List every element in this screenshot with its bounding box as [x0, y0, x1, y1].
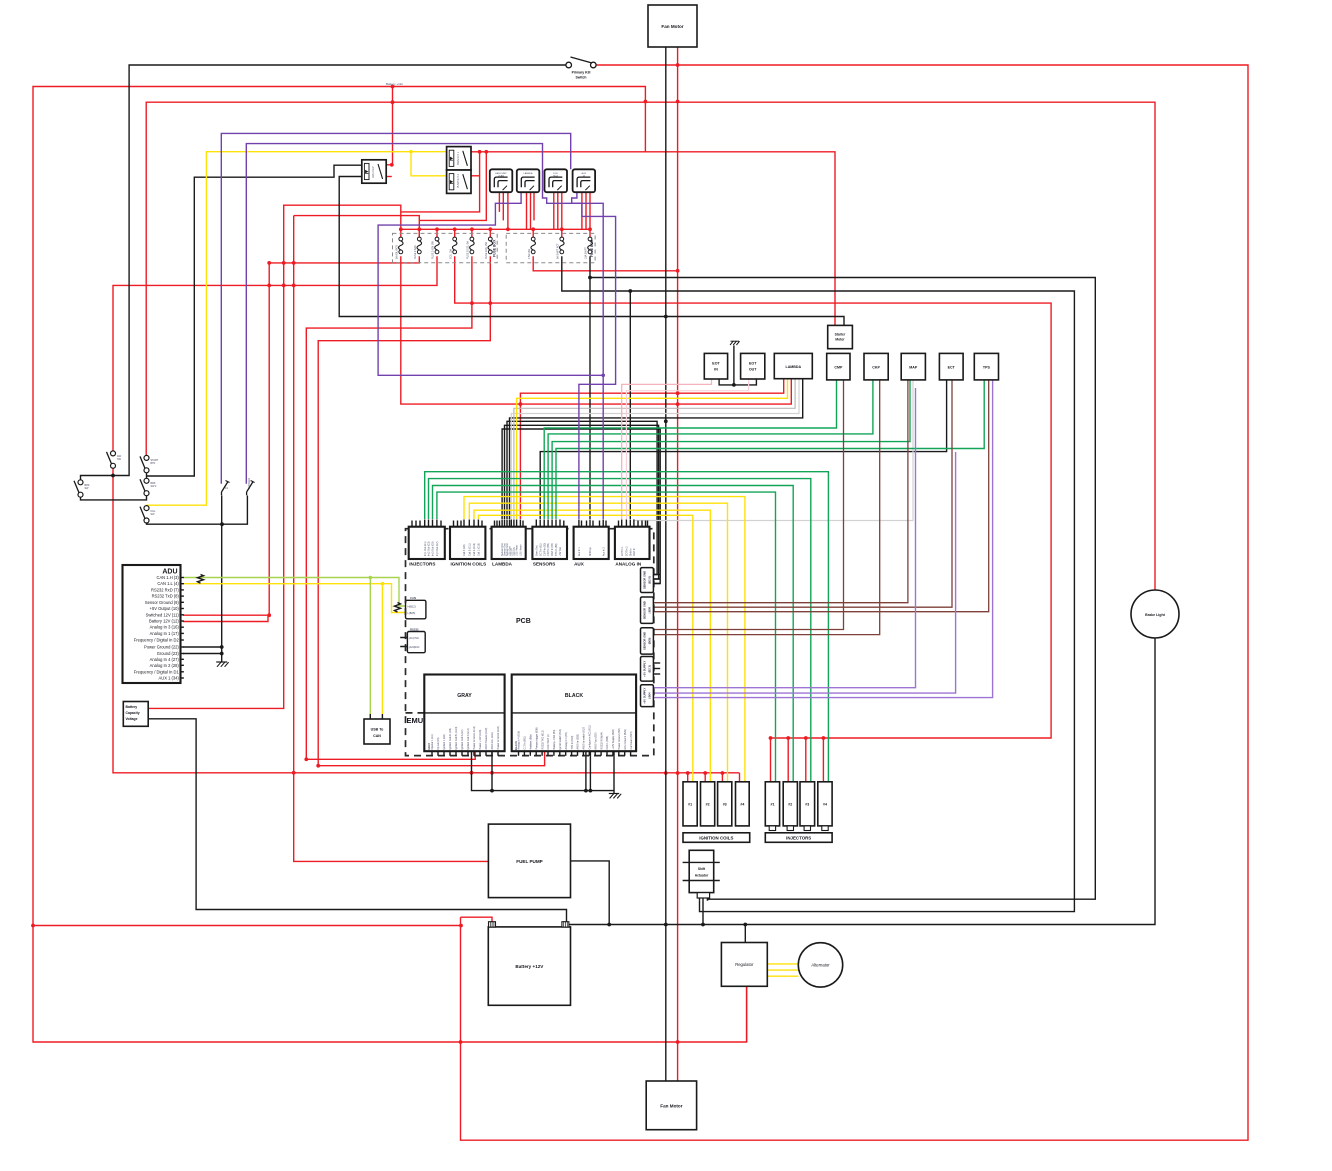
wire black: EMU ground pins [472, 751, 615, 793]
wire red: relay3 contact stub [470, 175, 479, 177]
wire brown: CKP ground [653, 380, 879, 635]
wire light-purple: +5V supply to MAP [653, 388, 915, 688]
svg-text:Inj 4 Out (G7): Inj 4 Out (G7) [436, 541, 439, 556]
svg-text:Inj 2 Out (G3): Inj 2 Out (G3) [428, 541, 431, 556]
svg-text:Configure in AC2 (B11): Configure in AC2 (B11) [589, 725, 592, 750]
svg-text:BTN: BTN [151, 462, 156, 465]
fuse box 1 [393, 233, 498, 262]
wire black: battery capacity voltage sense [149, 719, 567, 925]
wire red: relay socket pins to bus [499, 192, 590, 229]
svg-text:7.5A FAN: 7.5A FAN [528, 249, 531, 259]
wire green: injector 3 signal [429, 479, 811, 782]
wire black: kill switch line and switch3 feed [81, 65, 569, 482]
connector AUX pins [578, 520, 606, 557]
ignition coil 1 [683, 782, 697, 826]
resistor CAN terminator at PCB [395, 603, 401, 613]
svg-text:Battery 12V (12): Battery 12V (12) [149, 619, 179, 624]
wire brown: TPS ground [653, 380, 988, 612]
svg-text:Shift Up: Shift Up [589, 547, 592, 556]
wire yellow: kill feed to relay coils and switch5 [147, 152, 447, 508]
svg-text:Capacity: Capacity [126, 711, 140, 715]
svg-text:Switch: Switch [576, 76, 587, 80]
svg-text:RS232 TxD (8): RS232 TxD (8) [152, 594, 180, 599]
sensor CKP [864, 353, 888, 380]
connector ANALOG IN pins [619, 520, 648, 557]
svg-text:15A SHIFT: 15A SHIFT [585, 247, 588, 259]
wire green: injector 4 signal [425, 472, 829, 782]
svg-text:Coil 3 (G11): Coil 3 (G11) [468, 543, 471, 556]
svg-text:Ignition Coil 2 (G2): Ignition Coil 2 (G2) [461, 729, 464, 749]
svg-text:Power Gr land2 (G24): Power Gr land2 (G24) [497, 726, 500, 750]
svg-text:RS232: RS232 [410, 627, 419, 631]
wire black: regulator ground [744, 925, 746, 943]
svg-text:INJECTORS: INJECTORS [786, 836, 811, 841]
svg-text:SENSOR GND: SENSOR GND [643, 571, 647, 589]
svg-text:#1: #1 [771, 803, 775, 807]
connector BLACK [512, 675, 636, 752]
wire pink: EOT OUT signal [626, 379, 748, 519]
svg-text:PUMP RLY 2: PUMP RLY 2 [457, 173, 460, 188]
wire black: switch2-switch4 link [146, 472, 148, 481]
svg-text:+5V Output (10): +5V Output (10) [150, 606, 180, 611]
svg-text:AMO EGL (G21): AMO EGL (G21) [491, 732, 494, 750]
wire black: fuse to shift actuator line B [562, 256, 1075, 911]
svg-text:+5V SUPPLY: +5V SUPPLY [643, 687, 647, 703]
wire red: fuse top stubs [419, 229, 590, 239]
switch primary kill [566, 57, 596, 80]
svg-text:(B2 3): (B2 3) [648, 665, 652, 673]
svg-text:MAP: MAP [909, 366, 918, 370]
EMU connector pin stubs [432, 751, 631, 756]
ADU display unit [123, 565, 181, 683]
svg-text:(A24)RxD: (A24)RxD [409, 646, 420, 649]
svg-text:CAN: CAN [373, 734, 381, 738]
svg-text:PCB: PCB [516, 618, 531, 625]
svg-text:5A SHIFT ACT: 5A SHIFT ACT [556, 243, 559, 259]
svg-text:MAIN RLY 1: MAIN RLY 1 [457, 151, 460, 165]
wire red: fuse5 to ECU GRAY supply [306, 256, 475, 759]
wire yellow: ADU CAN low [183, 584, 406, 719]
svg-text:CAN 1.L (4): CAN 1.L (4) [157, 581, 179, 586]
svg-text:TPS In (B19): TPS In (B19) [571, 735, 574, 749]
ground symbol EOT chassis [730, 341, 740, 345]
fuse F5 [470, 237, 475, 254]
ADU pin labels [134, 575, 184, 681]
wire black: chassis lever to ADU grounds [183, 496, 222, 663]
svg-text:FUSE B ECU 5A: FUSE B ECU 5A [467, 241, 470, 259]
svg-text:Inj 3 Out (G5): Inj 3 Out (G5) [432, 541, 435, 556]
fuse F6 [488, 237, 493, 254]
wire green: TPS signal [556, 380, 984, 519]
wire yellow: ignition coil 2 signal [474, 510, 710, 782]
svg-text:Alternator: Alternator [811, 963, 830, 968]
svg-text:SENSOR GND: SENSOR GND [643, 632, 647, 650]
svg-text:Injector 1 (G1): Injector 1 (G1) [431, 734, 434, 749]
svg-text:Coil 4 (G9): Coil 4 (G9) [463, 544, 466, 556]
svg-text:EOT In 2: EOT In 2 [626, 546, 629, 556]
wire black: shift actuator ground pin [702, 901, 704, 925]
fan motor bottom [646, 1081, 696, 1130]
connector +5V SUPPLY (B2 3) [641, 657, 654, 682]
wire red: switch1 feed from fuse 3 [113, 256, 437, 453]
svg-text:OUT: OUT [749, 368, 757, 372]
svg-text:FUSE ECU 15A: FUSE ECU 15A [485, 242, 488, 259]
svg-text:TPS: TPS [983, 366, 991, 370]
svg-text:LAMBDA: LAMBDA [786, 365, 802, 369]
svg-text:ECT In (B1): ECT In (B1) [539, 543, 542, 556]
svg-text:+5V SUPPLY: +5V SUPPLY [643, 661, 647, 677]
svg-text:EOT: EOT [749, 362, 757, 366]
svg-text:AUX 1 (34): AUX 1 (34) [159, 676, 180, 681]
svg-text:Frequency / Digital In D1: Frequency / Digital In D1 [134, 669, 180, 674]
svg-text:(B2 9): (B2 9) [648, 576, 652, 584]
svg-text:Starter: Starter [835, 333, 846, 337]
svg-text:Actuator: Actuator [695, 874, 709, 878]
relay K7 pump [447, 170, 471, 193]
resistor CAN terminator at ADU [198, 575, 204, 584]
svg-text:Aux In 2: Aux In 2 [602, 547, 605, 556]
svg-text:EOT In 1: EOT In 1 [621, 546, 624, 556]
EMU connector pin labels [431, 725, 633, 750]
svg-text:Fan Motor: Fan Motor [660, 1104, 682, 1109]
fan motor top [648, 5, 697, 47]
svg-text:Primary trigger (B08): Primary trigger (B08) [535, 727, 538, 749]
wire red: ignition coil supply stubs [688, 773, 740, 782]
wire red: fan motor supply vertical [677, 47, 679, 1083]
injector 1 [765, 782, 779, 826]
fuse F2 [417, 237, 422, 254]
svg-text:Frequency / Digital In D2: Frequency / Digital In D2 [134, 638, 180, 643]
svg-text:CMP: CMP [834, 366, 843, 370]
svg-text:Ignition 1 (G8): Ignition 1 (G8) [443, 734, 446, 749]
fuse F9 [588, 237, 593, 254]
svg-text:FUEL PUMP: FUEL PUMP [516, 859, 542, 864]
svg-text:EMU: EMU [407, 716, 424, 725]
svg-text:CKP In (B5): CKP In (B5) [547, 543, 550, 556]
svg-text:Voltage: Voltage [126, 717, 138, 721]
switch S1 ignition [107, 451, 116, 468]
wire red: lambda heater return to PCB connector [520, 379, 783, 519]
wire yellow: regulator-alternator phases [767, 964, 798, 976]
wire red: injector supply stubs [771, 738, 824, 782]
svg-text:Ignition Coil A1 (G9): Ignition Coil A1 (G9) [449, 728, 452, 750]
svg-text:Sens Gnd: Sens Gnd [535, 545, 538, 556]
sensor EOT OUT [741, 353, 765, 379]
svg-text:| B08: | B08 [648, 606, 652, 613]
svg-text:AUX: AUX [574, 562, 585, 567]
ignition coil 3 [718, 782, 732, 826]
wire black: fan motor line [665, 47, 667, 1083]
wire red: brake light feed loop [146, 102, 1155, 590]
connector CAN [406, 600, 426, 619]
svg-text:Ignition Coil 4 (G14): Ignition Coil 4 (G14) [467, 728, 470, 749]
svg-text:CMP In (B3): CMP In (B3) [543, 543, 546, 556]
sensor CMP [827, 353, 850, 380]
wire red: switch1 output to ignition coil bus [113, 466, 740, 773]
svg-text:IGNITION COILS: IGNITION COILS [451, 562, 487, 567]
ignition coil 4 [736, 782, 750, 826]
svg-text:FUSE 3 IGN SW: FUSE 3 IGN SW [432, 240, 435, 259]
wire black: sensor ground bus 2 [505, 425, 659, 579]
wire brown: MAP ground [653, 380, 908, 603]
wire black: analog-in branch [629, 291, 631, 519]
svg-text:BLACK: BLACK [565, 693, 583, 699]
PCB dashed outline [406, 529, 654, 756]
wire green: CMP signal [544, 380, 836, 519]
battery capacity voltage module [123, 702, 148, 727]
wire red: main fuse bus [401, 228, 590, 230]
fuel pump [488, 824, 570, 898]
wire red: relay1 coil feed stub [387, 176, 392, 178]
connector LAMBDA [492, 527, 526, 559]
svg-text:MAP In (B7): MAP In (B7) [551, 543, 554, 556]
wire green: injector 2 signal [433, 486, 794, 782]
connector SENSOR GND (B2 9) [641, 568, 654, 593]
wire black: fuel pump return [571, 861, 610, 925]
svg-text:Brake Light: Brake Light [1145, 613, 1166, 617]
ignition coils label [683, 833, 750, 843]
wire black: switch5 bottom to chassis lever [147, 496, 248, 525]
svg-text:Battery+ CAN (B3): Battery+ CAN (B3) [553, 729, 556, 749]
switch lever1 kill [222, 481, 230, 496]
fuse box 2 [506, 233, 595, 262]
svg-text:SENSORS: SENSORS [533, 562, 555, 567]
wire yellow: ignition coil 1 signal [478, 515, 692, 782]
svg-text:Analog In 4 (27): Analog In 4 (27) [150, 657, 180, 662]
svg-text:AUX: AUX [582, 172, 587, 175]
injector 3 [800, 782, 815, 826]
alternator [798, 943, 842, 987]
wire black: relay1 pin to starter motor line [339, 177, 844, 326]
svg-text:L(B25): L(B25) [408, 611, 416, 615]
wire green: injector 1 signal [437, 492, 776, 782]
svg-text:Sensor Ground (9): Sensor Ground (9) [145, 600, 180, 605]
svg-text:Coil 1 (G15): Coil 1 (G15) [478, 543, 481, 556]
sensor EOT IN [704, 353, 727, 379]
svg-text:Aux In 1: Aux In 1 [578, 547, 581, 556]
svg-text:FUSE 2 ADU: FUSE 2 ADU [414, 245, 417, 259]
svg-text:Regulator: Regulator [735, 962, 754, 967]
fuse F7 [531, 237, 536, 254]
battery 12V [488, 927, 570, 1005]
sensor LAMBDA [774, 353, 812, 378]
svg-text:IN: IN [714, 368, 718, 372]
svg-text:#4: #4 [823, 803, 827, 807]
wire light-purple: +5V supply to TPS [653, 380, 992, 698]
wire yellow: ignition coil 4 signal [464, 497, 745, 782]
ground symbol EMU [609, 794, 621, 799]
fuse F8 [560, 237, 565, 254]
connector SENSOR GND | B08 [641, 597, 654, 623]
connector LAMBDA pins [495, 520, 524, 557]
svg-text:CAN HIGH (1): CAN HIGH (1) [547, 734, 550, 749]
relay socket K2 LAMBDA [517, 169, 540, 192]
svg-text:ECT: ECT [948, 366, 956, 370]
svg-text:Power Gr land1 (G12): Power Gr land1 (G12) [473, 726, 476, 750]
svg-text:LAMBDA: LAMBDA [492, 562, 513, 567]
wire red: battery positive branch [33, 917, 492, 925]
svg-text:CLT In (B01): CLT In (B01) [524, 736, 527, 750]
wire purple: kill lever1 to relay D coil [221, 133, 570, 483]
battery terminal negative [562, 922, 569, 927]
relay socket K1 FAN PUMP [490, 169, 513, 192]
svg-text:Shift In: Shift In [629, 548, 632, 556]
wire gray: MAP signal to analog-in [634, 380, 913, 521]
wire brown: ECT ground [653, 380, 952, 607]
wire red: kill-switch output loop to right edge and bottom [461, 65, 1249, 1140]
junction dots colored [369, 150, 606, 586]
wire black: fuse9 to shift actuator line A [590, 256, 1095, 900]
switch S2 start [140, 455, 149, 472]
svg-text:#2: #2 [706, 803, 710, 807]
svg-text:H(B12): H(B12) [408, 604, 416, 608]
fuse F1 [399, 237, 404, 254]
wire black: lambda sensor ground [510, 379, 803, 519]
connector SENSOR GND (B09) [641, 628, 654, 654]
shift actuator [689, 850, 714, 892]
svg-text:#3: #3 [805, 803, 809, 807]
wire red: fuse8 to fan motor feed [533, 256, 679, 271]
wire black: sensor ground bus 3 [502, 429, 660, 584]
wire black: switch2 output to relay1 [147, 165, 362, 476]
wire gray: lambda signal 2 [511, 379, 799, 519]
svg-text:(B09): (B09) [648, 637, 652, 644]
connector ANALOG IN [615, 527, 650, 559]
wire red: fuse4 to injector supply bus [455, 256, 1051, 738]
svg-text:Battery +12v: Battery +12v [386, 82, 403, 86]
svg-text:IGNITION COILS: IGNITION COILS [699, 836, 733, 841]
relay socket K3 ECU [545, 169, 568, 192]
connector SENSORS pins [535, 520, 563, 557]
battery terminal positive [489, 922, 496, 927]
svg-text:ANALOG IN: ANALOG IN [615, 562, 641, 567]
svg-text:SENSOR GND: SENSOR GND [643, 601, 647, 619]
fuse F4 [452, 237, 457, 254]
svg-text:Primary Kill: Primary Kill [572, 71, 591, 75]
brake light [1131, 590, 1179, 638]
wire red: vertical to fuel pump [294, 216, 489, 862]
svg-text:Ign kill switch (B14): Ign kill switch (B14) [559, 729, 562, 750]
wire purple: relay D pin link [572, 192, 604, 375]
connector AUX [574, 527, 609, 559]
svg-text:CAN 1 (B05): CAN 1 (B05) [606, 736, 609, 750]
svg-text:Battery +12V: Battery +12V [515, 964, 544, 969]
wire pink: EOT IN signal [622, 379, 712, 519]
svg-text:Analog In 3 (16): Analog In 3 (16) [150, 625, 180, 630]
svg-text:AMO Provider (G19): AMO Provider (G19) [485, 728, 488, 750]
svg-text:+12V Supply (B28): +12V Supply (B28) [612, 729, 615, 749]
svg-text:Ground (23): Ground (23) [157, 651, 180, 656]
wire yellow: ignition coil 3 signal [469, 503, 727, 782]
svg-text:Fan Motor: Fan Motor [661, 24, 683, 29]
svg-text:Power +12V (G18): Power +12V (G18) [479, 729, 482, 749]
svg-text:CKP: CKP [872, 366, 880, 370]
wire black: switch3 bottom to switch4 bottom [81, 493, 147, 500]
sensor ECT [939, 353, 963, 380]
svg-text:Power Ground (22): Power Ground (22) [144, 645, 179, 650]
svg-text:Analog In 2 (28): Analog In 2 (28) [150, 663, 180, 668]
svg-text:Switched 12V (11): Switched 12V (11) [146, 612, 180, 617]
svg-text:USB To: USB To [371, 728, 385, 732]
junction dots red [31, 63, 825, 1044]
connector GRAY [424, 675, 504, 752]
switch lever2 lanyard [247, 481, 255, 496]
svg-text:5A ADU/BCV: 5A ADU/BCV [395, 245, 398, 259]
svg-text:Can board (B2H): Can board (B2H) [630, 731, 633, 749]
wire black: EOT sensors ground link [719, 346, 756, 385]
svg-text:AMO for (B20): AMO for (B20) [577, 734, 580, 750]
svg-text:(A11)TxD: (A11)TxD [409, 637, 419, 640]
wire red: fuse1 top feed and battery capacity voltage branch [149, 205, 401, 708]
svg-text:EOT: EOT [712, 362, 720, 366]
svg-text:Coil 2 (G13): Coil 2 (G13) [473, 543, 476, 556]
USB to CAN adapter [364, 719, 390, 744]
svg-text:SW 2: SW 2 [151, 485, 158, 488]
svg-text:#4: #4 [740, 803, 744, 807]
connector INJECTORS [409, 527, 445, 559]
wire yellow: lambda signal [517, 379, 788, 519]
starter motor [828, 325, 853, 348]
ignition coil 2 [701, 782, 715, 826]
wire light-green: ADU CAN high [183, 578, 406, 720]
wire red: relay2 contact to starter motor [470, 152, 835, 326]
svg-text:TPS In (B9): TPS In (B9) [555, 543, 558, 556]
wire red: fuse2 top feed [294, 216, 420, 239]
svg-text:AMO Four (B2f): AMO Four (B2f) [594, 732, 597, 749]
wire red: relay1 output up to +12V lines [387, 87, 393, 165]
wire black: ECT signal to sensors connector [540, 380, 946, 519]
svg-text:Analog In 4 (B7): Analog In 4 (B7) [565, 732, 568, 749]
svg-text:| B04: | B04 [648, 692, 652, 699]
svg-text:MAP In: MAP In [633, 548, 636, 556]
injector 4 [818, 782, 832, 826]
sensor TPS [974, 353, 998, 380]
svg-text:LAMBDA: LAMBDA [524, 172, 534, 175]
wire gray: lambda signal 1 [514, 379, 795, 519]
svg-text:Ambient (B6a): Ambient (B6a) [530, 734, 533, 749]
svg-text:Power Ground (B2f): Power Ground (B2f) [618, 728, 621, 749]
svg-text:RS232 RxD (7): RS232 RxD (7) [151, 587, 179, 592]
relay K5 fan2 [362, 160, 386, 183]
svg-text:Analog In 4 (B16): Analog In 4 (B16) [518, 731, 521, 750]
svg-text:#2: #2 [788, 803, 792, 807]
wire red: fuse2 to ADU supply pins [183, 256, 419, 621]
connector SENSORS [532, 527, 567, 559]
svg-text:CAN 1.H (3): CAN 1.H (3) [157, 575, 180, 580]
switch S3 brake [74, 480, 83, 497]
connector INJECTORS pins [412, 520, 441, 557]
wire brown: CMP ground [653, 380, 843, 630]
svg-text:Main: Main [553, 176, 559, 178]
svg-text:ECU Ground (B2R): ECU Ground (B2R) [624, 729, 627, 750]
svg-text:RS232 RXN(A4): RS232 RXN(A4) [600, 732, 603, 750]
sensor MAP [901, 353, 925, 380]
svg-text:INJECTORS: INJECTORS [409, 562, 435, 567]
svg-text:LSU Heat-: LSU Heat- [516, 545, 519, 556]
svg-text:FUSE BOX: FUSE BOX [493, 239, 497, 257]
svg-text:#1: #1 [688, 803, 692, 807]
switch S5 kill [140, 506, 149, 523]
svg-text:Battery: Battery [126, 705, 138, 709]
svg-text:FAN 2 RLY: FAN 2 RLY [372, 166, 375, 178]
wire red: relay socket branch verticals [401, 152, 487, 221]
svg-text:+5V Out: +5V Out [559, 547, 562, 556]
connector RS232 [407, 632, 425, 653]
wire red: fuse6 to ECU BLACK supply [318, 256, 544, 765]
wire black: main ground bus battery to brake light [565, 638, 1155, 925]
wire red: outer left +12V loop battery to regulator [33, 87, 747, 1043]
wire purple: relay B pin to AUX input 2 [378, 192, 603, 519]
